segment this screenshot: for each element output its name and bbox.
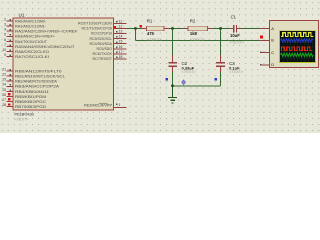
pin 11 stub (RC0)	[78, 19, 126, 25]
svg-text:<TEXT>: <TEXT>	[15, 117, 30, 121]
pin 21 stub (RB0)	[2, 68, 61, 74]
svg-text:RA3/AN3/C1IN+/VREF+: RA3/AN3/C1IN+/VREF+	[15, 35, 56, 39]
R2 text placeholder	[190, 37, 206, 42]
svg-text:RB3/AN9/CCP2/P2A: RB3/AN9/CCP2/P2A	[15, 85, 60, 89]
svg-text:18: 18	[119, 55, 123, 59]
svg-text:26: 26	[2, 93, 6, 97]
svg-text:22: 22	[2, 73, 6, 77]
svg-text:10: 10	[2, 48, 6, 52]
svg-text:RA7/OSC1/CLKI: RA7/OSC1/CLKI	[15, 55, 49, 59]
svg-text:10uF: 10uF	[230, 33, 240, 38]
svg-text:RC1/T1OSI/CCP2A: RC1/T1OSI/CCP2A	[82, 27, 113, 31]
pin 14 stub (RC3)	[90, 35, 127, 41]
scope screen	[280, 31, 316, 63]
pin 27 stub (RB6)	[2, 98, 46, 104]
svg-text:RC5/SDO: RC5/SDO	[97, 47, 113, 51]
scope trace channel B (blue)	[281, 39, 313, 42]
scope terminal A	[271, 26, 274, 31]
C2 value 0.33uF	[182, 66, 195, 71]
svg-text:A: A	[271, 26, 274, 31]
origin marker diamond	[182, 80, 186, 85]
wire: pin12 to R1	[126, 28, 146, 30]
C3 label	[229, 61, 235, 66]
svg-text:13: 13	[119, 30, 123, 34]
C1 label	[231, 14, 237, 19]
svg-text:RB2/AN8/INT2/SDI/SDA: RB2/AN8/INT2/SDI/SDA	[15, 80, 57, 84]
C3 text placeholder	[229, 70, 244, 74]
pin 2 stub (RA0)	[4, 18, 47, 24]
svg-text:RA4/T0CKI/C1OUT: RA4/T0CKI/C1OUT	[15, 40, 48, 44]
svg-text:3: 3	[4, 23, 6, 27]
svg-text:RB4/KBI0/AN11: RB4/KBI0/AN11	[15, 90, 49, 94]
pin 23 stub (RB2)	[2, 78, 57, 84]
wire: R2 to C1	[208, 28, 234, 30]
wire: lower run to scope B	[136, 39, 270, 41]
svg-text:15: 15	[119, 40, 123, 44]
node junction at C3	[219, 27, 222, 30]
svg-text:2: 2	[4, 18, 6, 22]
svg-text:RC4/SDI/SDA: RC4/SDI/SDA	[90, 42, 113, 46]
svg-text:7: 7	[4, 43, 6, 47]
scope trace channel D (green)	[281, 53, 314, 57]
svg-text:RC6/TX/CK: RC6/TX/CK	[93, 52, 113, 56]
pin 25 stub (RB4)	[2, 88, 49, 94]
C2 label	[182, 61, 188, 66]
svg-text:RB6/KBI2/PGC: RB6/KBI2/PGC	[15, 100, 46, 104]
svg-text:<TEXT>: <TEXT>	[190, 37, 206, 42]
svg-text:RC7/RX/DT: RC7/RX/DT	[93, 57, 113, 61]
svg-text:RA1/AN1/C12IN1-: RA1/AN1/C12IN1-	[15, 25, 47, 29]
svg-text:<TEXT>: <TEXT>	[230, 39, 246, 44]
wire: C2 bottom to rail	[172, 66, 174, 86]
wire: C3 bottom to rail	[220, 66, 222, 86]
C3 value 0.1uF	[229, 66, 240, 71]
svg-text:12: 12	[119, 24, 123, 28]
capacitor C2 (shunt)	[168, 62, 177, 67]
svg-text:16: 16	[119, 45, 123, 49]
scope trace channel C (red)	[281, 47, 312, 50]
svg-text:23: 23	[2, 78, 6, 82]
svg-text:B: B	[271, 38, 274, 43]
svg-text:475: 475	[147, 31, 155, 36]
svg-text:C1: C1	[231, 14, 237, 19]
svg-text:RE3/MCLR/VPP: RE3/MCLR/VPP	[84, 104, 112, 108]
svg-text:RC0/T1OSO/T13CKI: RC0/T1OSO/T13CKI	[78, 22, 112, 26]
pin 24 stub (RB3)	[2, 83, 59, 89]
resistor R2	[183, 26, 213, 31]
R2 value 1k8	[190, 31, 198, 36]
svg-text:RB0/AN12/INT0/FLT0: RB0/AN12/INT0/FLT0	[15, 70, 62, 74]
pin 6 stub (RA4)	[4, 38, 48, 44]
svg-text:28: 28	[2, 103, 6, 107]
svg-text:RA5/AN4/SS/HLVDIN/C2OUT: RA5/AN4/SS/HLVDIN/C2OUT	[15, 45, 75, 49]
part text placeholder	[15, 117, 30, 121]
R1 value 475	[147, 31, 155, 36]
pin 16 stub (RC5)	[97, 45, 127, 51]
svg-text:RA6/OSC2/CLKO: RA6/OSC2/CLKO	[15, 50, 49, 54]
svg-text:C: C	[271, 50, 274, 55]
svg-text:R2: R2	[190, 18, 196, 23]
C2 text placeholder	[182, 70, 197, 74]
node junction at ground	[171, 84, 174, 87]
svg-text:RC2/CCP1/P1A: RC2/CCP1/P1A	[91, 32, 112, 36]
svg-text:<TEXT>: <TEXT>	[229, 70, 244, 74]
wire: R1 to R2	[164, 28, 188, 30]
R1 text placeholder	[147, 37, 163, 42]
svg-text:9: 9	[4, 53, 6, 57]
pin 10 stub (RA6)	[2, 48, 49, 54]
scope trace channel A (yellow)	[281, 33, 314, 37]
svg-text:6: 6	[4, 38, 6, 42]
node junction at C2	[171, 27, 174, 30]
svg-text:1: 1	[119, 103, 121, 107]
pin 7 stub (RA5)	[4, 43, 75, 49]
svg-text:RA0/AN0/C12IN0-: RA0/AN0/C12IN0-	[15, 20, 47, 24]
capacitor C1 (series)	[230, 25, 242, 33]
microcontroller U1 PIC18F24J10 body	[13, 18, 114, 110]
R1 label	[147, 18, 153, 23]
R2 label	[190, 18, 196, 23]
pin 9 stub (RA7)	[4, 53, 49, 59]
svg-text:11: 11	[119, 19, 123, 23]
ground	[168, 86, 177, 103]
pin 12 stub (RC1)	[82, 24, 127, 30]
pin 1 stub (RE3/MCLR/VPP)	[84, 103, 126, 108]
pin 5 stub (RA3)	[4, 33, 56, 39]
wire: ground rail	[173, 85, 221, 87]
svg-text:D: D	[271, 62, 274, 67]
scope terminal B	[271, 38, 274, 43]
C1 value 10uF	[230, 33, 240, 38]
R1 pin state marker (red)	[140, 25, 142, 27]
oscilloscope body	[270, 20, 319, 67]
C3 pin state marker (blue)	[214, 78, 217, 81]
svg-text:RB1/AN10/INT1/SCK/SCL: RB1/AN10/INT1/SCK/SCL	[15, 75, 65, 79]
C1 text placeholder	[230, 39, 246, 44]
svg-text:5: 5	[4, 33, 6, 37]
svg-text:RC3/SCK/SCL: RC3/SCK/SCL	[90, 37, 113, 41]
svg-text:24: 24	[2, 83, 6, 87]
wire: C2 branch vertical	[172, 29, 174, 63]
svg-text:25: 25	[2, 88, 6, 92]
pin 3 stub (RA1)	[4, 23, 47, 29]
svg-text:27: 27	[2, 98, 6, 102]
scope B pin state marker (red)	[260, 36, 263, 39]
pin 4 stub (RA2)	[4, 28, 78, 34]
wire: branch down from junction	[135, 29, 137, 41]
scope terminal D	[260, 62, 274, 67]
wire: C1 to scope A	[237, 28, 270, 30]
C2 pin state marker (blue)	[165, 78, 168, 81]
svg-text:U1: U1	[19, 13, 25, 18]
pin 22 stub (RB1)	[2, 73, 65, 79]
svg-text:<TEXT>: <TEXT>	[147, 37, 163, 42]
svg-text:RB5/KBI1/PGM: RB5/KBI1/PGM	[15, 95, 46, 99]
pin 18 stub (RC7)	[93, 55, 127, 61]
pin 15 stub (RC4)	[90, 40, 127, 46]
svg-text:<TEXT>: <TEXT>	[182, 70, 197, 74]
node junction at branch to scope B	[134, 27, 137, 30]
svg-text:RB7/KBI3/PGD: RB7/KBI3/PGD	[15, 105, 46, 109]
wire: C3 branch vertical	[220, 29, 222, 63]
pin 13 stub (RC2)	[91, 30, 126, 36]
pin 17 stub (RC6)	[93, 50, 127, 56]
part value PIC18F24J10	[15, 112, 35, 117]
resistor R1	[141, 26, 170, 31]
svg-text:R1: R1	[147, 18, 153, 23]
svg-text:RA2/AN2/C2IN+/VREF-/CVREF: RA2/AN2/C2IN+/VREF-/CVREF	[15, 30, 78, 34]
svg-text:21: 21	[2, 68, 6, 72]
svg-text:4: 4	[4, 28, 6, 32]
pin 28 stub (RB7)	[2, 103, 46, 109]
U1 reference label	[19, 13, 25, 18]
scope terminal C	[260, 50, 274, 55]
svg-text:17: 17	[119, 50, 123, 54]
capacitor C3 (shunt)	[216, 62, 225, 67]
svg-text:1k8: 1k8	[190, 31, 198, 36]
svg-text:PIC18F24J10: PIC18F24J10	[15, 112, 35, 117]
pin 26 stub (RB5)	[2, 93, 46, 99]
svg-text:14: 14	[119, 35, 123, 39]
